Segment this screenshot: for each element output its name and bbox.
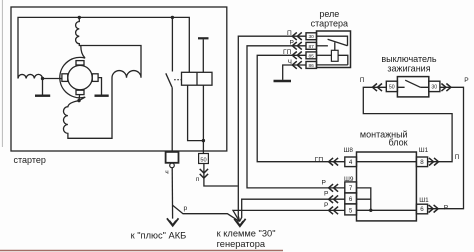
starter box [11, 7, 227, 151]
connector: relay pin 85 [292, 52, 302, 60]
wire: right brush to ground [98, 78, 101, 95]
svg-text:ГП: ГП [283, 49, 292, 56]
solenoid plunger stem [202, 39, 204, 72]
connector: block Ш9-7 [329, 184, 339, 192]
wire: bottom brush link [78, 95, 81, 101]
switch pin 50 box [386, 81, 397, 91]
svg-text:П: П [287, 30, 292, 37]
block pin Ш9-5 box [345, 204, 357, 215]
svg-text:ГП: ГП [315, 156, 324, 163]
connector: block Ш9-6 [329, 195, 339, 203]
block pin Ш9-7 box [345, 182, 357, 193]
block pin Ш1-6 box [416, 204, 427, 214]
dashed link: solenoid to main contact [174, 79, 182, 81]
connector: starter 50 (down chevrons) [204, 164, 238, 187]
relay pin 87 stub [317, 45, 328, 47]
connector: block Ш8-4 [329, 158, 339, 166]
svg-text:Ч: Ч [288, 59, 292, 66]
terminal 50 box [199, 154, 209, 164]
wire: battery terminal drop (lower) [171, 87, 173, 152]
relay coil to pin 86 [317, 55, 348, 65]
svg-text:50: 50 [200, 157, 206, 163]
ground (relay winding) [274, 80, 292, 82]
svg-text:ч: ч [165, 169, 168, 176]
connector: relay pin 87 [292, 42, 302, 50]
wire Р: switch 30 to block Ш1-6 [428, 87, 464, 208]
svg-text:зажигания: зажигания [387, 63, 430, 73]
svg-text:П: П [360, 77, 365, 84]
wire: to left brush [43, 78, 62, 80]
relay pin 85 stub [317, 54, 332, 56]
connector: relay pin 86 [292, 61, 302, 69]
connector: relay pin 30 [292, 32, 302, 40]
node: block internal junction [369, 209, 372, 212]
svg-text:Р: Р [444, 205, 449, 212]
wire Р: relay pin 87 to block Ш9-7 [247, 46, 345, 188]
node: solenoid winding junction [202, 139, 205, 142]
wire: pull-in winding lead to terminal 50 [202, 85, 204, 153]
relay pin 87 box [306, 42, 317, 49]
wire: battery terminal drop (upper) [171, 17, 173, 71]
solenoid main contact blade [166, 73, 172, 87]
relay coil [331, 50, 338, 61]
wire Ч: relay pin 86 to ground [283, 65, 306, 80]
svg-text:стартера: стартера [311, 19, 348, 29]
node: rail junction to battery terminal [171, 16, 174, 19]
svg-text:86: 86 [309, 63, 315, 69]
inductor L1 left field winding [18, 74, 43, 78]
relay pin 85 box [306, 52, 317, 59]
node: bottom brush junction [77, 99, 80, 102]
solenoid contact bar [198, 37, 209, 39]
block pin Ш8-4 box [345, 157, 357, 167]
relay contact blade [328, 39, 348, 46]
block internal: row 4 to 8 [357, 161, 417, 163]
mounting block body [357, 152, 417, 221]
svg-text:30: 30 [431, 85, 437, 91]
svg-text:Ш1: Ш1 [419, 147, 429, 154]
wire: armature arc top hook [81, 46, 85, 58]
wire ГП: relay pin 85 to block Ш8-4 [257, 55, 345, 161]
node: rail junction to armature branch [78, 16, 81, 19]
svg-text:Р: Р [324, 202, 329, 209]
svg-text:П: П [455, 154, 460, 161]
svg-text:к "плюс" АКБ: к "плюс" АКБ [131, 231, 187, 241]
ground (right brush) [95, 94, 109, 96]
armature winding arc [60, 57, 85, 97]
svg-text:6: 6 [420, 206, 424, 213]
svg-text:85: 85 [309, 53, 315, 59]
svg-text:блок: блок [389, 138, 408, 148]
svg-text:выключатель: выключатель [381, 54, 437, 64]
wire: inner supply rail with left drop [18, 17, 189, 78]
svg-text:Р: Р [464, 77, 469, 84]
motor M1 armature circle [68, 65, 92, 89]
svg-text:Ш8: Ш8 [344, 147, 354, 154]
svg-text:87: 87 [309, 44, 315, 50]
page scan edge line (left) [1, 0, 3, 147]
block pin Ш1-8 box [416, 157, 427, 167]
svg-text:п: п [196, 176, 200, 183]
connector: block Ш9-5 [329, 207, 339, 215]
svg-text:4: 4 [349, 159, 353, 166]
svg-text:7: 7 [349, 185, 353, 192]
connector: block Ш1-8 [429, 158, 439, 166]
node: field winding / ground junction [41, 77, 44, 80]
wire П: block Ш1-8 to switch 50 [363, 87, 452, 161]
svg-text:Р: Р [324, 191, 329, 198]
relay K1 body [317, 31, 351, 68]
wire ч: battery wire down to arrow [171, 168, 173, 219]
block internal: row 5 to 6 [357, 209, 417, 211]
red underline artifact [0, 250, 283, 252]
switch pin 30 box [429, 81, 440, 91]
solenoid windings box [182, 72, 213, 85]
svg-text:6: 6 [349, 196, 353, 203]
svg-text:р: р [184, 205, 188, 212]
connector: block Ш1-6 [429, 205, 439, 213]
ignition switch body [397, 77, 428, 97]
wire Р: block Ш9-6 to generator arrow [240, 199, 345, 221]
arrow: to battery plus [167, 218, 179, 226]
relay pin 86 box [306, 62, 317, 69]
brush (left) [62, 74, 68, 82]
svg-text:стартер: стартер [14, 155, 46, 165]
svg-text:Р: Р [290, 40, 295, 47]
terminal: starter main + bolt [166, 152, 179, 163]
brush (top) [76, 61, 84, 65]
relay fixed contact [317, 36, 348, 46]
ground (left field winding) [42, 79, 44, 95]
connector: switch pin 30 [441, 84, 451, 92]
wire: hold-in winding lead [188, 85, 204, 140]
connector: switch pin 50 [373, 84, 383, 92]
svg-text:30: 30 [309, 34, 315, 40]
inductor chain: series field windings (top coil, right coil, bottom coil) [63, 17, 141, 138]
switch contact stubs and blade [397, 86, 428, 88]
relay armature link [334, 42, 336, 50]
block internal: pins 7,6 bus [357, 188, 371, 210]
brush (right) [92, 74, 98, 82]
svg-text:8: 8 [420, 159, 424, 166]
wire П: relay pin 30 to generator line [238, 36, 306, 221]
svg-text:5: 5 [349, 207, 353, 214]
solenoid winding divider [196, 72, 198, 85]
brush (bottom) [76, 90, 84, 94]
svg-text:Ш9: Ш9 [344, 176, 354, 183]
relay pin 30 box [306, 33, 317, 40]
svg-text:50: 50 [389, 85, 395, 91]
wire р: battery line branch to generator arrow [173, 205, 240, 221]
wire: armature arc bottom hook [79, 97, 85, 101]
svg-text:Р: Р [322, 179, 327, 186]
svg-text:к клемме "30": к клемме "30" [217, 229, 276, 239]
wire Р: block Ш9-5 to generator arrow [233, 210, 345, 221]
arrow: to generator terminal 30 [234, 219, 245, 227]
svg-text:Ш1: Ш1 [419, 197, 429, 204]
svg-text:генератора: генератора [217, 239, 266, 249]
block pin Ш9-6 box [345, 193, 357, 204]
